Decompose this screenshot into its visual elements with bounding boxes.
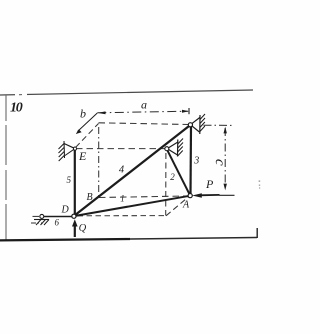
bar label 4 [119,164,125,175]
svg-text:E: E [78,149,87,163]
wall pin at left end of bar 6 (hatching) [31,220,49,226]
hidden edge E' to K (back top, dashed) [99,123,190,125]
svg-text:c: c [212,158,229,167]
dimension b (diagonal leader with arrow toward E) [76,113,98,134]
support at K (wall with hatching) [190,114,205,134]
node circle at wall pin [40,214,44,218]
node D [72,214,76,218]
svg-text:D: D [61,205,70,216]
svg-text:2: 2 [170,172,175,182]
svg-text:4: 4 [119,164,125,175]
svg-text:10: 10 [10,101,23,116]
bar 5 (rod D-E) [74,150,76,216]
hidden edge F to G (front right vertical, dashed) [165,153,167,216]
label B [87,192,93,203]
bar 3 (rod K-A) [189,126,192,195]
left border line [5,95,7,240]
node A [188,194,192,198]
dimension b label [80,106,86,120]
dimension a label [141,97,147,111]
label P [205,177,214,191]
bar label 1 [120,193,125,203]
hidden edge E' to B (back left vertical, dash-dot) [98,127,100,200]
svg-text:6: 6 [55,218,60,228]
force Q (arrow up at D) [72,219,78,237]
support at F (wall with hatching) [167,139,183,157]
label E [78,149,87,163]
svg-text:P: P [205,177,214,191]
node K (top right) [188,123,192,127]
bar 1 (rod D-A) [75,196,190,216]
node F [165,147,169,151]
bar 2 (rod F-A) [167,150,190,195]
svg-text:b: b [80,106,86,120]
node E [73,147,76,150]
hidden edge G to A (depth, dashed) [166,197,189,216]
bar 4 (rod D-K) [75,125,191,215]
bar label 5 [67,175,72,185]
hidden edge D to G (front bottom, dash-dot) [78,215,167,217]
support at E (wall with hatching) [59,141,76,161]
hidden edge B to A (back bottom, dashed) [99,196,188,198]
force P (arrow left at A) [192,193,220,198]
svg-text:B: B [87,192,93,203]
label D [61,205,70,216]
label Q [79,223,87,234]
svg-text:a: a [141,97,147,111]
paper specks right edge [259,181,261,189]
dimension a (top, dash-dot with arrows) [97,108,189,114]
hidden edge E to F (front top, dashed) [76,148,167,150]
svg-text:3: 3 [193,155,199,166]
svg-text:1: 1 [120,193,125,203]
axis dash left of wall pin [33,215,40,217]
svg-text:Q: Q [79,223,87,234]
bar label 3 [193,155,199,166]
dimension c label (rotated) [212,158,229,167]
bar label 2 [170,172,175,182]
figure number 10 [10,101,23,116]
bar label 6 [55,218,60,228]
bar 6 (rod wall-D) [42,216,73,218]
top border line [0,90,253,95]
dimension c (right side, dash-dot vertical with arrows) [204,125,235,195]
hidden edge E to E' (depth, dashed) [76,124,99,148]
svg-text:A: A [182,200,190,211]
bottom border line [0,228,257,240]
label A [182,200,190,211]
svg-text:5: 5 [67,175,72,185]
